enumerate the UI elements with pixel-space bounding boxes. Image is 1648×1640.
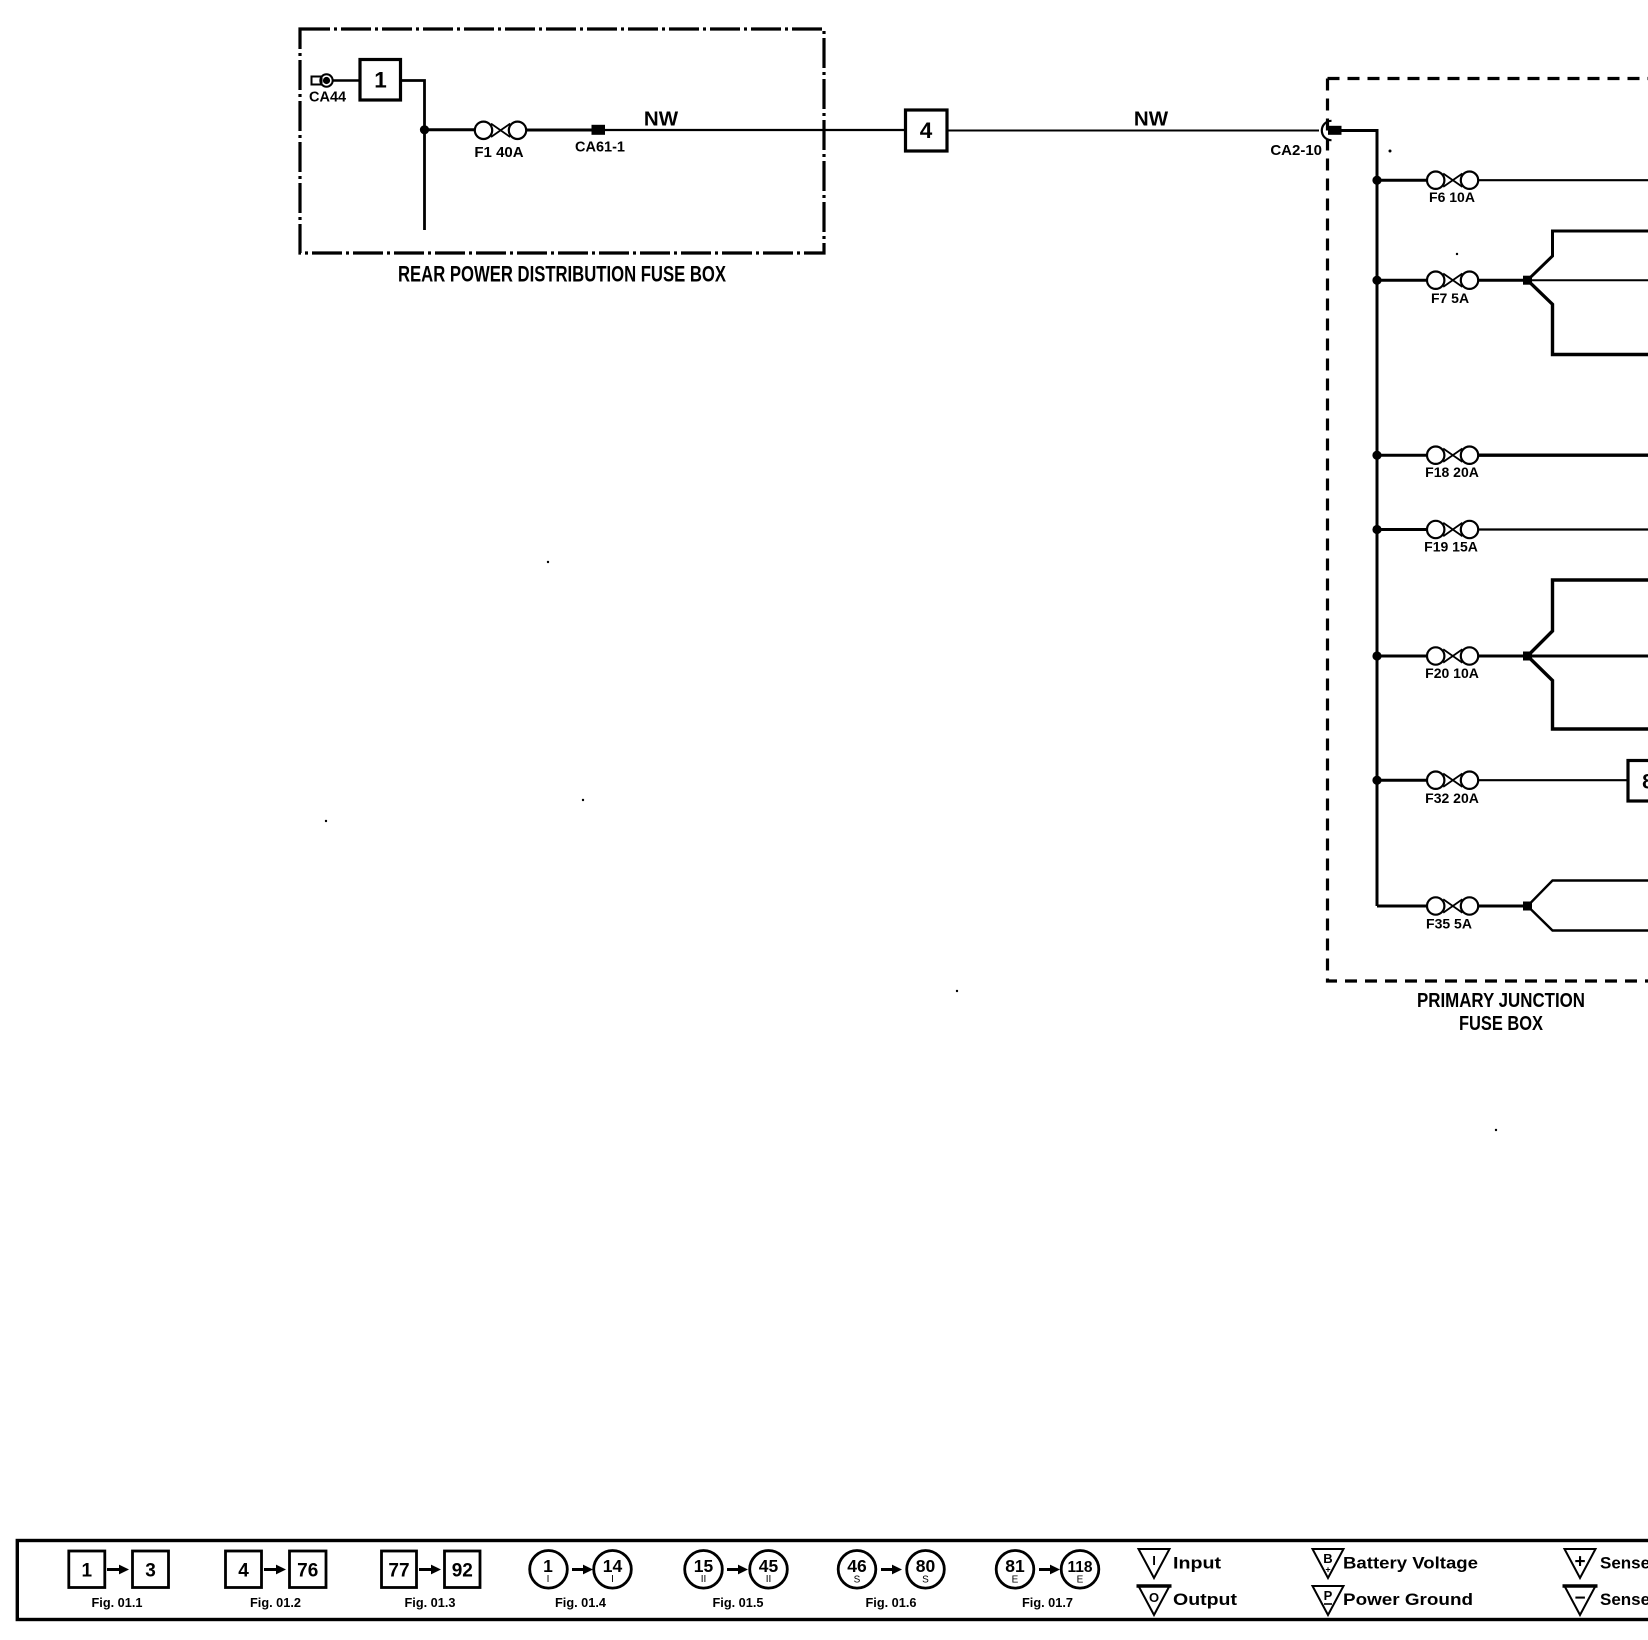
svg-text:F7 5A: F7 5A [1431,290,1469,306]
svg-text:S: S [922,1575,929,1586]
legend connector circle 80/S [907,1551,945,1589]
svg-text:92: 92 [452,1561,473,1582]
wire to fuse F32 [1377,779,1427,782]
reference box 8 (clipped at right edge) [1628,761,1648,802]
svg-text:I: I [547,1574,550,1585]
wire F7 output to branch node [1478,279,1528,282]
wire F35 branch lower [1528,906,1648,931]
svg-text:CA2-10: CA2-10 [1270,142,1322,159]
fuse F6 10A [1427,172,1478,189]
wire F7 branch middle [1528,279,1648,281]
fuse F1 40A [475,122,526,139]
svg-text:3: 3 [145,1561,156,1582]
scan speck 4 [956,990,958,992]
wire F19 output [1478,528,1648,530]
svg-text:F6 10A: F6 10A [1429,189,1475,205]
legend input symbol [1139,1549,1170,1578]
wire F18 output [1478,454,1648,457]
rear power distribution fuse box enclosure [300,29,824,253]
legend connector circle 81/E [996,1551,1034,1589]
legend reference box 76 [290,1551,327,1588]
legend arrow 2 [264,1565,286,1575]
scan speck 3 [325,820,327,822]
wire box 4 to connector CA2-10 [947,130,1319,132]
svg-text:I: I [1152,1553,1156,1568]
svg-text:II: II [766,1574,772,1585]
svg-text:76: 76 [297,1561,318,1582]
branch node F20 [1523,652,1532,661]
svg-text:F1 40A: F1 40A [474,144,523,161]
legend arrow 7 [1039,1565,1060,1575]
scan speck 1 [547,561,549,563]
svg-text:1: 1 [543,1556,553,1576]
primary junction fuse box label [1417,989,1585,1035]
scan speck 5 [1495,1129,1497,1131]
svg-text:Fig. 01.5: Fig. 01.5 [713,1596,764,1610]
wire CA44 to box 1 [333,79,361,81]
svg-text:81: 81 [1005,1556,1025,1576]
fuse F7 5A [1427,272,1478,289]
wire junction to fuse F1 [425,128,476,131]
wire fuse F1 to splice CA61-1 [526,129,592,132]
wire F32 output [1478,779,1628,781]
legend arrow 6 [881,1565,902,1575]
svg-text:F18 20A: F18 20A [1425,464,1479,480]
legend reference box 77 [382,1551,417,1588]
fuse F20 10A [1427,647,1478,664]
svg-text:F19 15A: F19 15A [1424,539,1478,555]
svg-text:E: E [1012,1575,1019,1586]
svg-text:NW: NW [644,108,679,131]
svg-text:FUSE BOX: FUSE BOX [1459,1012,1543,1035]
scan speck 2 [582,799,584,801]
fuse F19 15A [1427,521,1478,538]
svg-text:Sense: Sense [1600,1590,1648,1609]
bus wire from CA2-10 down the fuse box [1341,131,1377,907]
svg-text:1: 1 [374,68,387,93]
svg-text:Fig. 01.6: Fig. 01.6 [866,1596,917,1610]
svg-text:Input: Input [1173,1554,1221,1573]
svg-text:P: P [1324,1588,1333,1603]
svg-text:+: + [1325,1565,1330,1575]
svg-text:Fig. 01.4: Fig. 01.4 [555,1596,606,1610]
legend connector circle 46/S [838,1551,876,1589]
svg-text:4: 4 [920,118,933,143]
wire F7 branch upper [1528,231,1648,280]
wire F20 branch lower [1528,656,1648,729]
wire to fuse F6 [1377,179,1427,182]
legend connector circle 1/I [530,1551,568,1589]
wire F20 branch upper [1528,580,1648,656]
svg-text:Fig. 01.7: Fig. 01.7 [1022,1596,1073,1610]
svg-text:118: 118 [1067,1559,1092,1576]
legend arrow 1 [107,1565,129,1575]
splice CA61-1 [592,125,606,135]
legend reference box 4 [226,1551,262,1588]
wire F35 branch upper [1528,881,1648,907]
svg-text:CA61-1: CA61-1 [575,140,625,156]
junction node F6 feed [1372,176,1381,185]
svg-text:F35 5A: F35 5A [1426,916,1472,932]
branch node F35 [1523,902,1532,911]
connector CA44 terminal [312,74,333,86]
svg-text:14: 14 [603,1556,623,1576]
svg-text:NW: NW [1134,108,1169,131]
scan speck 7 [1456,253,1458,255]
junction node F32 feed [1372,776,1381,785]
branch node F7 [1523,276,1532,285]
wire F7 branch lower [1528,280,1648,354]
svg-text:O: O [1149,1590,1159,1605]
primary junction fuse box enclosure [1328,79,1648,982]
svg-text:Battery Voltage: Battery Voltage [1343,1554,1478,1573]
svg-text:I: I [611,1574,614,1585]
wire to fuse F18 [1377,454,1427,457]
junction node [420,125,429,134]
connector CA2-10 [1322,121,1342,140]
wire F35 output to branch node [1478,905,1528,908]
svg-text:F20 10A: F20 10A [1425,665,1479,681]
fuse F35 5A [1427,897,1478,914]
legend bar frame [17,1541,1648,1620]
svg-text:Fig. 01.3: Fig. 01.3 [405,1596,456,1610]
rear power distribution fuse box label [398,262,726,287]
svg-text:1: 1 [82,1561,93,1582]
legend connector circle 118/E [1061,1551,1099,1589]
svg-text:CA44: CA44 [309,90,346,106]
svg-text:45: 45 [759,1556,779,1576]
connector CA44 label [309,90,346,106]
legend battery voltage symbol [1313,1549,1344,1578]
svg-text:+: + [1574,1552,1585,1573]
wire F20 output to branch node [1478,655,1528,658]
junction node F19 feed [1372,525,1381,534]
reference box 1 [360,60,401,101]
legend output symbol [1137,1586,1172,1615]
legend reference box 3 [133,1551,169,1588]
reference box 4 [906,110,948,151]
corner to fuse F35 feed [1377,905,1427,908]
svg-text:4: 4 [238,1561,249,1582]
legend power ground symbol [1313,1586,1344,1615]
junction node F7 feed [1372,276,1381,285]
legend sense plus symbol [1565,1549,1596,1578]
junction node F20 feed [1372,651,1381,660]
svg-text:−: − [1574,1588,1585,1609]
svg-text:S: S [854,1575,861,1586]
svg-text:E: E [1077,1575,1084,1586]
svg-text:77: 77 [388,1561,409,1582]
svg-text:80: 80 [916,1556,936,1576]
wire to fuse F20 [1377,655,1427,658]
wire to fuse F19 [1377,528,1427,531]
legend connector circle 45/II [750,1551,788,1589]
legend arrow 5 [727,1565,748,1575]
wire box 1 output, corner down [401,81,425,231]
svg-text:F32 20A: F32 20A [1425,790,1479,806]
wire splice to reference box 4 [605,129,905,131]
wire F20 branch middle [1528,655,1648,658]
svg-text:Output: Output [1173,1590,1237,1609]
legend arrow 4 [572,1565,593,1575]
svg-text:II: II [701,1574,707,1585]
legend connector circle 15/II [685,1551,723,1589]
svg-text:Sense: Sense [1600,1554,1648,1573]
wire to fuse F7 [1377,279,1427,282]
fuse F32 20A [1427,772,1478,789]
svg-text:8: 8 [1642,771,1648,794]
junction node F18 feed [1372,451,1381,460]
legend reference box 1 [69,1551,105,1588]
svg-text:PRIMARY JUNCTION: PRIMARY JUNCTION [1417,989,1585,1012]
wire F6 output [1478,179,1648,181]
svg-text:Power Ground: Power Ground [1343,1590,1473,1609]
svg-text:15: 15 [694,1556,714,1576]
svg-text:46: 46 [847,1556,867,1576]
legend arrow 3 [419,1565,441,1575]
svg-text:REAR POWER DISTRIBUTION FUSE B: REAR POWER DISTRIBUTION FUSE BOX [398,262,726,287]
legend sense minus symbol [1563,1586,1598,1615]
scan speck 6 [1389,150,1392,153]
svg-text:Fig. 01.1: Fig. 01.1 [92,1596,143,1610]
legend reference box 92 [445,1551,481,1588]
svg-text:Fig. 01.2: Fig. 01.2 [250,1596,301,1610]
legend connector circle 14/I [594,1551,632,1589]
fuse F18 20A [1427,447,1478,464]
